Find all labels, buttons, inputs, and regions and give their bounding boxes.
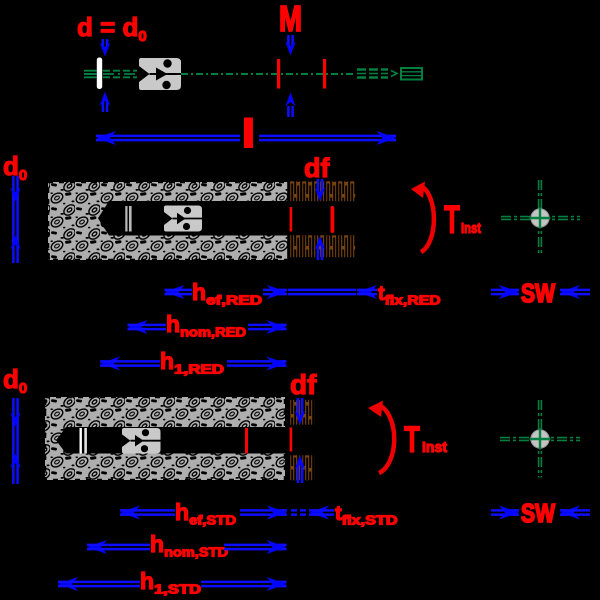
d0 dimension line vertical xyxy=(13,398,17,484)
end view axis vertical xyxy=(539,180,542,256)
svg-text:T: T xyxy=(404,419,420,460)
surface mark (red) xyxy=(290,207,293,232)
fixture wood top xyxy=(288,399,315,426)
row A': t_fix,STD dimension xyxy=(309,506,329,520)
df arrow upper (down) xyxy=(298,398,302,415)
dimension arrow d top (down) xyxy=(103,39,107,49)
torque arrow arc xyxy=(379,405,394,473)
torque arrow arc xyxy=(421,186,434,252)
row B: h_nom,RED dimension xyxy=(128,320,148,334)
torque arrowhead xyxy=(411,182,425,199)
dimension arrow d bottom (up) xyxy=(103,101,107,112)
expansion sleeve end marks xyxy=(125,206,127,232)
concrete member xyxy=(45,397,285,480)
end view axis vertical xyxy=(539,400,542,478)
expansion cone (triangle) xyxy=(156,68,168,81)
svg-text:T: T xyxy=(444,198,460,242)
surface mark (red) xyxy=(290,428,293,452)
slot line xyxy=(173,218,203,220)
row A: t_fix,RED dimension xyxy=(357,285,377,299)
anchor sleeve body (installed) xyxy=(122,428,161,454)
slot line xyxy=(131,440,161,442)
hole bottom xyxy=(183,223,190,230)
row C': h_1,STD dimension xyxy=(58,577,78,591)
thread band segments xyxy=(357,70,388,78)
thread lines right of washer xyxy=(103,71,137,78)
row C: h_1,RED dimension xyxy=(100,357,120,371)
svg-text:d = d0: d = d0 xyxy=(77,12,147,45)
end view cross xyxy=(530,208,551,229)
body slot line xyxy=(150,73,182,75)
fixture wood bottom xyxy=(288,235,356,259)
df arrow lower (up) xyxy=(298,466,302,483)
end view axis horizontal xyxy=(501,217,580,220)
end view bolt circle xyxy=(531,430,549,448)
centerline xyxy=(181,73,356,75)
row A: h_ef,RED dimension xyxy=(165,285,185,299)
row B': h_nom,STD dimension xyxy=(87,540,107,554)
thread mark M end xyxy=(323,59,326,89)
body hole bottom xyxy=(162,81,170,89)
embedment mark in hole (red) xyxy=(245,428,248,454)
washer marks in hole xyxy=(80,428,82,454)
body hole top xyxy=(163,59,171,67)
row A': SW dimension xyxy=(491,510,519,514)
M arrow upper (down) xyxy=(288,35,292,46)
svg-text:l: l xyxy=(244,113,254,154)
df arrow lower (up) xyxy=(318,246,322,260)
fixture wood top xyxy=(288,181,356,203)
df arrow upper (down) xyxy=(318,179,322,192)
d0 dimension line vertical xyxy=(13,176,17,263)
end view axis horizontal xyxy=(500,438,580,441)
end view bolt circle xyxy=(531,209,549,227)
drill hole xyxy=(56,427,285,454)
cone xyxy=(177,213,186,225)
thread mark M start xyxy=(277,59,280,89)
thread lines left of washer xyxy=(84,71,97,78)
drill hole xyxy=(98,201,289,236)
row A: SW dimension xyxy=(491,290,519,294)
anchor sleeve body xyxy=(139,58,181,90)
end view cross xyxy=(530,429,551,450)
svg-text:Inst: Inst xyxy=(461,220,481,237)
svg-text:SW: SW xyxy=(521,498,555,528)
row A: connector over fixture xyxy=(288,290,356,294)
hole bottom xyxy=(141,445,148,452)
bolt end mark (red) xyxy=(331,206,335,233)
M arrow lower (up) xyxy=(288,106,292,117)
small chevron xyxy=(391,71,397,77)
threaded tip band xyxy=(401,68,422,80)
svg-text:M: M xyxy=(279,0,302,39)
svg-text:df: df xyxy=(290,369,317,400)
cone xyxy=(135,435,144,447)
svg-text:df: df xyxy=(304,153,330,183)
torque arrowhead xyxy=(368,401,383,418)
fixture wood bottom xyxy=(288,455,315,482)
svg-text:Inst: Inst xyxy=(422,439,447,456)
row A': gap dashes xyxy=(291,510,306,514)
anchor sleeve body (installed) xyxy=(164,206,202,232)
hole top xyxy=(142,429,149,436)
row A': h_ef,STD dimension xyxy=(120,506,140,520)
svg-text:SW: SW xyxy=(521,278,555,308)
hole top xyxy=(184,207,191,214)
concrete member xyxy=(48,182,289,260)
washer (side view) xyxy=(97,58,102,90)
dimension line l xyxy=(96,136,396,140)
